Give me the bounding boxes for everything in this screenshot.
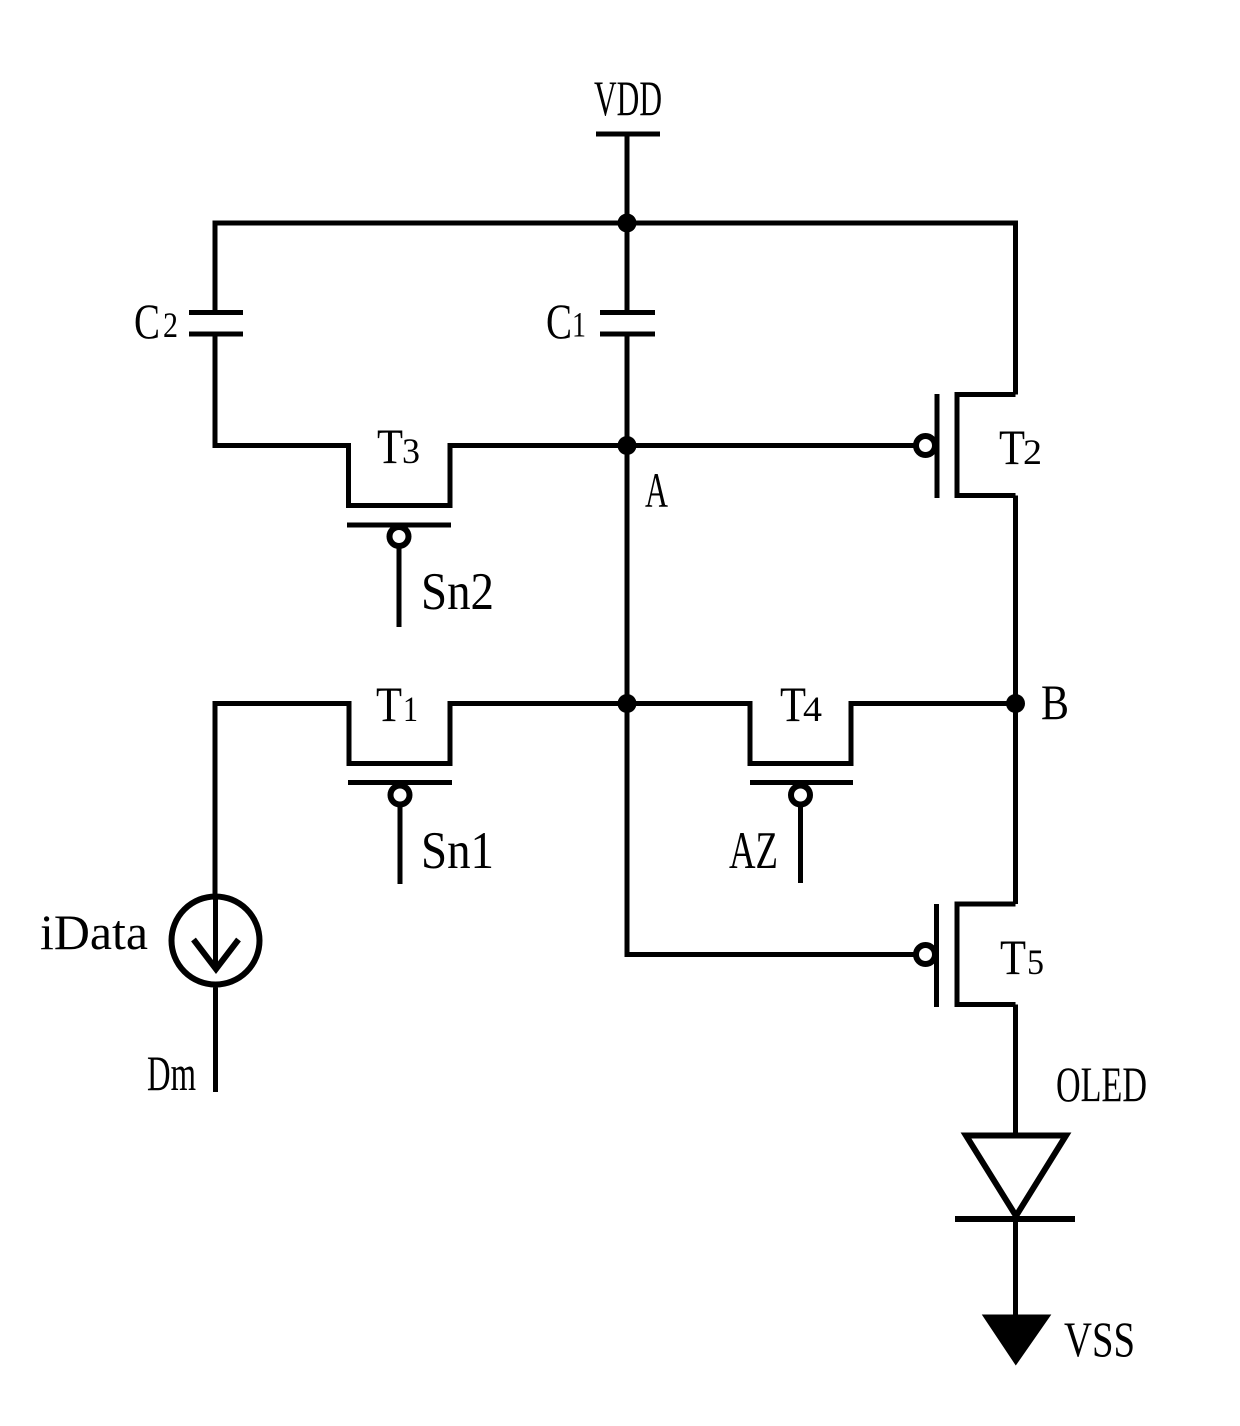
wire iData to Dm bbox=[213, 988, 218, 1093]
T2 gate bubble bbox=[916, 436, 935, 455]
wire node A down to mid node bbox=[625, 446, 630, 704]
transistor T1 channel bbox=[349, 701, 450, 764]
wire mid node to T4 source bbox=[627, 701, 752, 706]
VDD supply bar bbox=[596, 132, 660, 137]
T1 gate bubble bbox=[391, 786, 410, 805]
wire node A to T2 gate bbox=[627, 443, 915, 448]
svg-text:Sn2: Sn2 bbox=[421, 563, 494, 621]
transistor T3 channel bbox=[349, 443, 451, 506]
transistor T4 channel bbox=[750, 701, 851, 764]
wire T4 drain to node B bbox=[851, 701, 1016, 706]
wire T1 drain to mid node bbox=[450, 701, 627, 706]
svg-text:B: B bbox=[1041, 674, 1069, 730]
wire iData riser to T1 source bbox=[215, 704, 351, 895]
svg-text:1: 1 bbox=[403, 689, 418, 729]
wire top rail to C2 bbox=[213, 221, 218, 313]
transistor T2 gate bar bbox=[935, 394, 940, 498]
svg-text:T: T bbox=[377, 418, 403, 474]
T5 label bbox=[1000, 929, 1044, 985]
wire T2 to node B bbox=[1013, 496, 1018, 704]
svg-text:iData: iData bbox=[40, 904, 148, 960]
node B dot bbox=[1006, 694, 1025, 713]
svg-text:3: 3 bbox=[402, 431, 420, 471]
VSS terminal triangle bbox=[986, 1317, 1048, 1363]
svg-text:VSS: VSS bbox=[1064, 1311, 1135, 1367]
OLED diode cathode bar bbox=[955, 1216, 1075, 1222]
svg-text:C: C bbox=[546, 293, 572, 349]
svg-text:5: 5 bbox=[1027, 942, 1044, 982]
wire T1 gate to Sn1 bbox=[398, 805, 403, 884]
capacitor C1 bbox=[600, 313, 655, 335]
transistor T5 channel bbox=[957, 904, 1016, 1005]
svg-text:A: A bbox=[645, 462, 668, 518]
svg-text:OLED: OLED bbox=[1056, 1056, 1147, 1112]
T4 label bbox=[780, 676, 822, 732]
transistor T5 gate bar bbox=[934, 904, 939, 1007]
wire T4 gate to AZ bbox=[798, 805, 803, 883]
transistor T3 gate bar bbox=[347, 523, 451, 528]
T3 label bbox=[377, 418, 420, 474]
transistor T2 channel bbox=[957, 395, 1016, 496]
svg-text:4: 4 bbox=[803, 689, 822, 729]
svg-text:1: 1 bbox=[572, 305, 586, 345]
svg-text:2: 2 bbox=[1023, 432, 1042, 472]
current source iData circle bbox=[172, 897, 260, 985]
wire C2 to T3 source bbox=[215, 334, 351, 446]
T5 gate bubble bbox=[916, 945, 935, 964]
wire node B to T5 bbox=[1013, 704, 1018, 905]
wire T3 drain to node A bbox=[450, 443, 627, 448]
node VDD junction dot bbox=[618, 214, 637, 233]
T3 gate bubble bbox=[390, 527, 409, 546]
svg-text:T: T bbox=[1000, 929, 1026, 985]
wire T3 gate to Sn2 bbox=[397, 548, 402, 627]
svg-text:C: C bbox=[134, 293, 160, 349]
wire OLED to VSS bbox=[1013, 1219, 1018, 1322]
T1 label bbox=[376, 676, 418, 732]
C2 label bbox=[134, 293, 178, 349]
svg-text:Sn1: Sn1 bbox=[421, 822, 494, 880]
T2 label bbox=[999, 419, 1042, 475]
mid node dot bbox=[618, 694, 637, 713]
wire top rail right to T2 bbox=[1013, 221, 1018, 395]
T4 gate bubble bbox=[791, 786, 810, 805]
OLED diode anode triangle bbox=[966, 1136, 1066, 1217]
current source arrow shaft bbox=[213, 896, 218, 967]
transistor T4 gate bar bbox=[750, 780, 853, 785]
capacitor C2 bbox=[189, 313, 243, 335]
current source arrowhead bbox=[194, 940, 239, 970]
wire C1 bottom to node A bbox=[625, 334, 630, 446]
wire mid node down to T5 gate bbox=[627, 704, 916, 955]
node A dot bbox=[618, 436, 637, 455]
C1 label bbox=[546, 293, 586, 349]
wire VDD stem bbox=[625, 134, 630, 226]
svg-text:VDD: VDD bbox=[594, 70, 662, 126]
svg-text:T: T bbox=[999, 419, 1025, 475]
wire T5 to OLED bbox=[1013, 1005, 1018, 1138]
svg-text:AZ: AZ bbox=[729, 822, 778, 880]
svg-text:2: 2 bbox=[163, 305, 178, 345]
svg-text:Dm: Dm bbox=[147, 1045, 196, 1101]
transistor T1 gate bar bbox=[348, 780, 452, 785]
svg-text:T: T bbox=[376, 676, 402, 732]
wire top rail bbox=[215, 221, 1016, 226]
wire C1 top stem bbox=[625, 223, 630, 313]
